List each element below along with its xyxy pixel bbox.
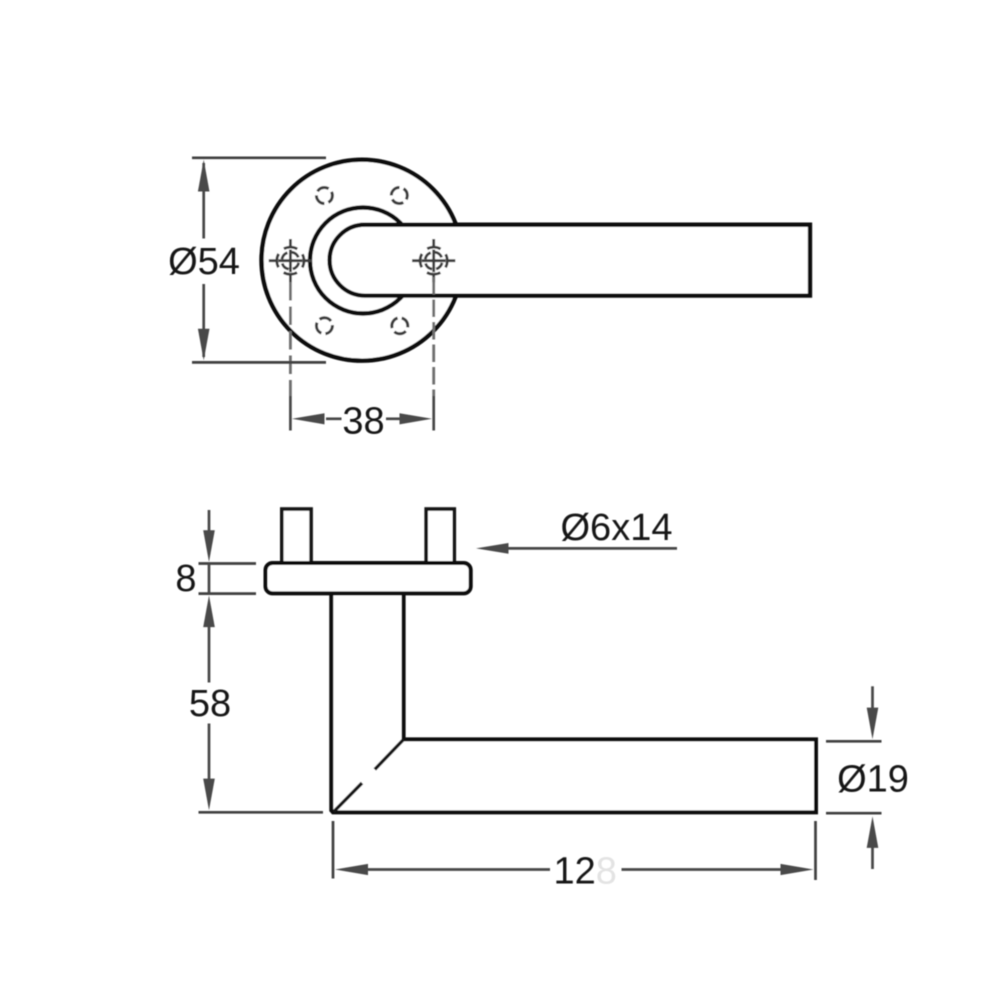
dim 8 upper arrow line: [208, 510, 211, 532]
svg-text:38: 38: [342, 400, 384, 442]
dim 58 line lower segment: [208, 724, 211, 780]
dim 58 lower arrowhead: [203, 779, 215, 811]
svg-text:Ø54: Ø54: [168, 241, 240, 283]
screw hole top-right: [391, 188, 407, 204]
miter line upper segment: [375, 739, 404, 769]
dim 128 extension line right: [814, 821, 817, 880]
screw hole top-left: [316, 188, 332, 204]
leader arrowhead Ø6x14: [476, 543, 509, 554]
dim Ø19 upper arrowhead: [867, 708, 879, 740]
dim 38 line right segment: [386, 417, 401, 420]
dim Ø19 extension line top: [826, 740, 882, 743]
rose plate (side view): [266, 563, 471, 593]
dim 38 extension line right: [432, 396, 435, 431]
dim 128 arrowhead left: [335, 864, 368, 875]
dim Ø54 extension line top: [192, 156, 326, 159]
lever handle top view: [330, 225, 810, 296]
rose inner circle: [310, 208, 416, 314]
dim Ø19 extension line bottom: [826, 812, 882, 815]
dim Ø54 arrowhead down: [198, 329, 210, 361]
dim 38 arrowhead left: [292, 413, 325, 424]
centre dashed line below right screw: [432, 277, 435, 396]
dim 128 arrowhead right: [781, 864, 814, 875]
dim Ø54 arrowhead up: [198, 160, 210, 192]
dim Ø54 line lower segment: [202, 284, 205, 357]
centre mark right screw: [412, 239, 455, 282]
dim 38 arrowhead right: [400, 413, 433, 424]
rose outer circle: [262, 160, 463, 361]
dim 58 line upper segment: [208, 627, 211, 683]
svg-text:Ø6x14: Ø6x14: [561, 507, 673, 549]
svg-text:58: 58: [189, 683, 231, 725]
dim 58 extension line bottom: [199, 811, 324, 814]
dim 8 upper arrowhead: [203, 530, 215, 562]
dim 8 extension line top: [199, 562, 257, 565]
miter line lower segment: [334, 783, 363, 812]
svg-text:Ø19: Ø19: [837, 758, 909, 800]
screw hole bottom-left: [316, 318, 332, 334]
screw hole bottom-right: [392, 318, 408, 334]
centre mark left screw: [269, 239, 312, 282]
svg-text:12: 12: [554, 850, 596, 892]
dim 8 line between extensions: [208, 564, 211, 594]
fixing stud left (side view): [282, 509, 311, 563]
dim Ø19 lower arrow line: [871, 848, 874, 870]
leader line Ø6x14: [508, 547, 677, 550]
svg-text:8: 8: [596, 850, 617, 892]
fixing stud right (side view): [426, 509, 454, 563]
dim Ø19 upper arrow line: [871, 686, 874, 709]
svg-text:8: 8: [175, 558, 196, 600]
dim 58 upper arrowhead: [203, 595, 215, 627]
dim Ø54 extension line bottom: [192, 361, 326, 364]
dim Ø19 lower arrowhead: [867, 816, 879, 848]
dim 38 line left segment: [326, 417, 342, 420]
dim 8 extension line bottom: [199, 592, 257, 595]
centre dashed line below left screw: [289, 282, 292, 396]
dim 128 extension line left: [332, 821, 335, 879]
dim 128 line right segment: [622, 868, 782, 871]
lever neck and arm (side view): [331, 593, 816, 812]
dim 38 extension line left: [289, 396, 292, 431]
dim Ø54 line upper segment: [202, 163, 205, 239]
dim 128 line left segment: [368, 868, 550, 871]
